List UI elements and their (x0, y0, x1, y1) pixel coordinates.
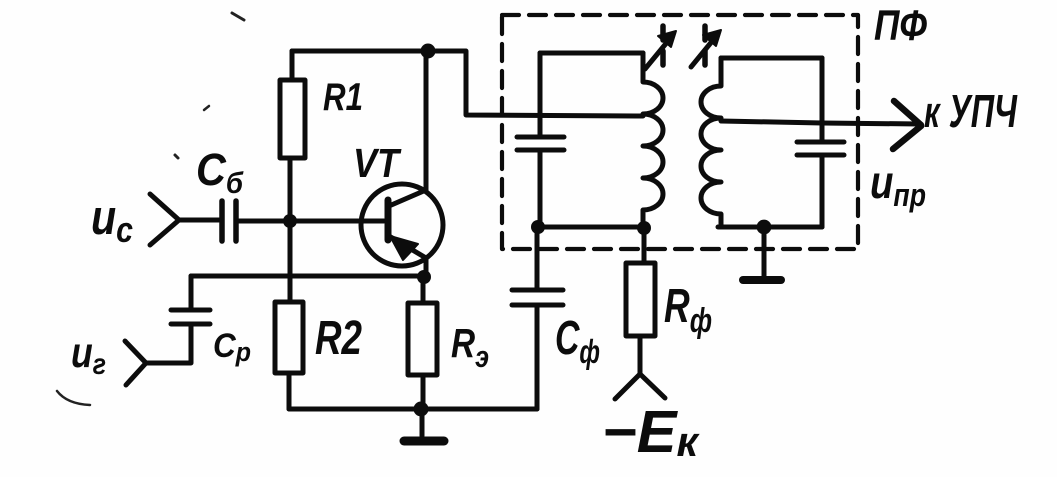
wire right tank bottom (718, 225, 822, 230)
output arrow к УПЧ (893, 101, 921, 149)
transistor VT (361, 51, 443, 277)
wire R1 top to collector node (292, 49, 428, 54)
ground (404, 409, 444, 441)
resistor Rф (626, 228, 655, 374)
capacitor Сб (222, 201, 236, 241)
wire bottom rail (289, 407, 537, 412)
svg-text:uпр: uпр (870, 156, 926, 213)
wire output tap to УПЧ (721, 121, 920, 124)
input terminal uг (125, 341, 146, 385)
node base junction (283, 214, 297, 228)
wire heterodyne to emitter (191, 274, 424, 279)
wire uc to Cb (179, 218, 219, 223)
tuning core L2 (691, 26, 721, 74)
svg-text:Rф: Rф (664, 280, 712, 340)
wire left tank bottom (538, 225, 644, 230)
wire R2 base lead down (288, 221, 293, 302)
capacitor C1 left tank (517, 53, 564, 227)
svg-text:Сб: Сб (196, 144, 244, 200)
tuning core L1 (645, 26, 676, 74)
resistor R2 (275, 302, 303, 409)
wire emitter to Re (421, 277, 426, 303)
svg-text:Rэ: Rэ (451, 320, 489, 374)
node left tank bottom (531, 220, 545, 234)
resistor R1 (280, 51, 305, 221)
node right tank ground (757, 220, 772, 235)
svg-text:−Eк: −Eк (602, 399, 700, 465)
node emitter (417, 270, 431, 284)
node collector junction (421, 44, 436, 59)
svg-text:R2: R2 (315, 312, 362, 365)
capacitor C2 right tank (797, 58, 844, 227)
svg-text:ПФ: ПФ (874, 2, 927, 50)
resistor Рэ (408, 303, 437, 409)
wire collector node to filter tap L1 (428, 51, 643, 116)
wire right tank top (721, 56, 822, 61)
inductor L2 (701, 58, 721, 227)
svg-text:uс: uс (91, 191, 133, 250)
svg-text:uг: uг (71, 329, 106, 381)
wire left tank top (540, 51, 643, 56)
capacitor Сф (512, 227, 563, 409)
svg-text:VT: VT (353, 140, 402, 186)
svg-text:R1: R1 (323, 76, 363, 119)
ground right tank (743, 227, 781, 280)
input terminal uc (150, 194, 179, 245)
terminal -Ек (615, 374, 665, 399)
wire Cb to base (238, 219, 384, 224)
svg-text:Ср: Ср (213, 327, 251, 367)
node Rф top (637, 221, 651, 235)
capacitor Ср (146, 276, 210, 363)
svg-text:Сф: Сф (555, 312, 600, 370)
node bottom rail (414, 402, 429, 417)
svg-text:к УПЧ: к УПЧ (924, 85, 1018, 137)
inductor L1 (643, 53, 663, 227)
dashed box ПФ (502, 15, 858, 249)
